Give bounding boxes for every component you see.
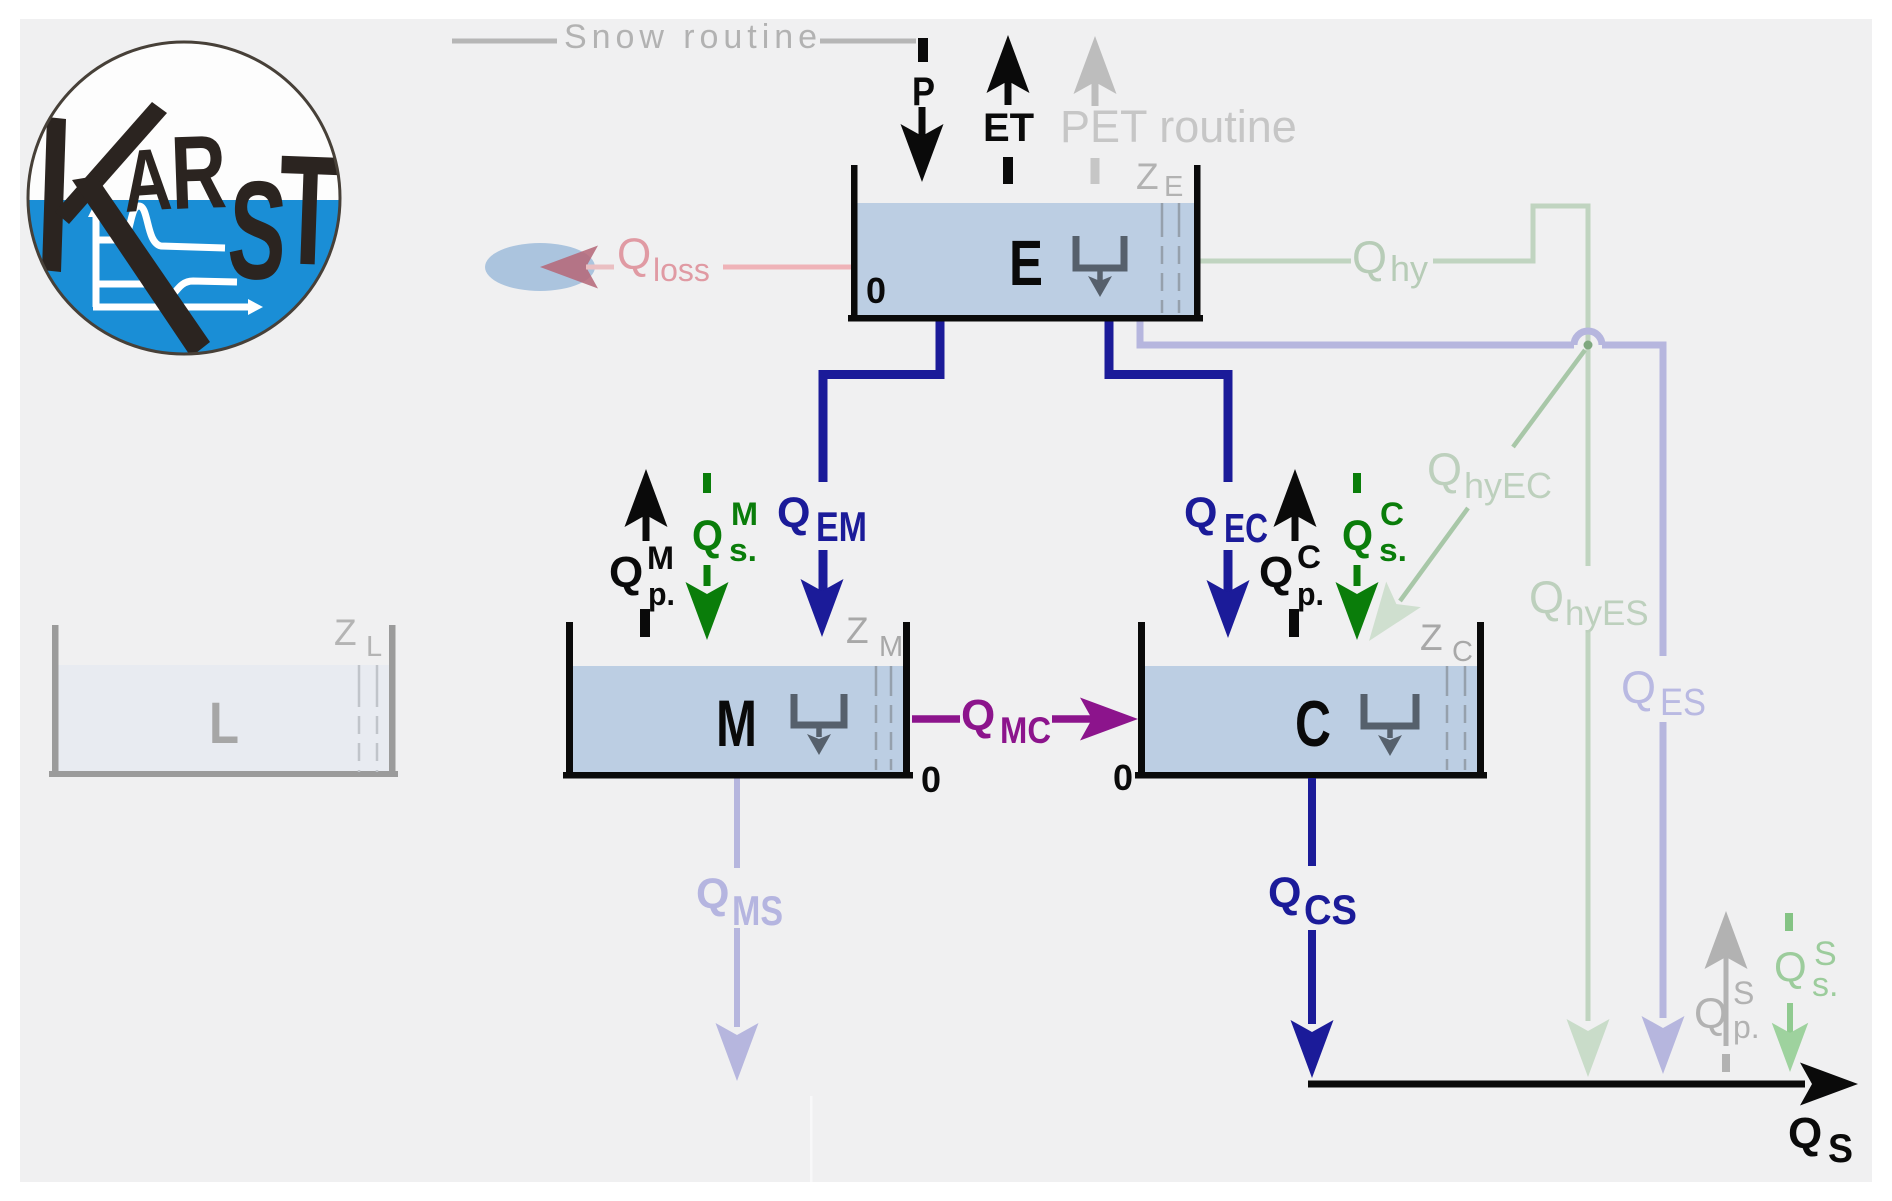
svg-text:L: L — [366, 631, 382, 663]
svg-text:ES: ES — [1660, 682, 1706, 724]
svg-text:Q: Q — [609, 548, 643, 597]
svg-text:Q: Q — [696, 870, 729, 918]
svg-text:M: M — [879, 631, 903, 663]
svg-text:ET: ET — [983, 106, 1034, 150]
svg-text:Z: Z — [1136, 156, 1159, 197]
svg-text:Q: Q — [1352, 232, 1387, 283]
svg-text:Q: Q — [617, 230, 651, 279]
svg-text:S: S — [1733, 975, 1754, 1011]
svg-text:R: R — [169, 114, 229, 232]
svg-text:Q: Q — [1427, 444, 1462, 495]
svg-text:EC: EC — [1224, 505, 1268, 551]
svg-text:C: C — [1297, 539, 1321, 575]
svg-text:Q: Q — [1184, 489, 1217, 537]
svg-text:Z: Z — [846, 610, 869, 651]
svg-text:L: L — [209, 691, 239, 756]
svg-text:S: S — [1828, 1127, 1853, 1171]
svg-text:M: M — [716, 686, 757, 760]
svg-text:MC: MC — [1000, 710, 1051, 751]
svg-text:Q: Q — [1529, 572, 1564, 623]
svg-text:Q: Q — [777, 489, 810, 537]
svg-text:Q: Q — [961, 691, 995, 740]
svg-text:s.: s. — [729, 532, 757, 568]
svg-text:Q: Q — [1268, 869, 1301, 917]
svg-text:PET routine: PET routine — [1060, 101, 1297, 152]
svg-text:0: 0 — [866, 270, 886, 311]
svg-text:loss: loss — [653, 252, 710, 288]
svg-text:hyEC: hyEC — [1464, 465, 1552, 506]
svg-text:Q: Q — [1342, 512, 1373, 560]
svg-text:0: 0 — [1113, 757, 1133, 798]
svg-text:p.: p. — [1733, 1009, 1760, 1045]
svg-text:M: M — [647, 540, 674, 576]
svg-text:Q: Q — [1259, 548, 1293, 597]
svg-text:C: C — [1380, 496, 1404, 532]
svg-text:p.: p. — [648, 576, 675, 612]
svg-text:Q: Q — [1788, 1109, 1822, 1158]
svg-text:CS: CS — [1304, 886, 1357, 933]
svg-text:0: 0 — [921, 759, 941, 800]
svg-text:p.: p. — [1297, 576, 1324, 612]
svg-text:s.: s. — [1379, 532, 1407, 568]
svg-text:E: E — [1164, 171, 1183, 203]
svg-text:EM: EM — [816, 503, 867, 550]
svg-text:Q: Q — [1694, 990, 1727, 1038]
svg-text:M: M — [731, 496, 758, 532]
svg-text:A: A — [119, 129, 174, 231]
svg-text:hy: hy — [1390, 248, 1428, 289]
svg-text:Snow routine: Snow routine — [564, 18, 817, 56]
svg-text:C: C — [1295, 687, 1331, 760]
svg-text:hyES: hyES — [1565, 594, 1649, 633]
svg-text:C: C — [1452, 636, 1473, 668]
svg-text:Z: Z — [334, 612, 357, 653]
svg-text:Q: Q — [692, 512, 723, 560]
svg-text:Q: Q — [1774, 943, 1807, 990]
svg-text:MS: MS — [732, 887, 783, 934]
svg-text:E: E — [1009, 227, 1043, 299]
svg-text:Q: Q — [1621, 662, 1656, 713]
svg-text:s.: s. — [1812, 966, 1838, 1004]
svg-text:Z: Z — [1420, 617, 1443, 658]
